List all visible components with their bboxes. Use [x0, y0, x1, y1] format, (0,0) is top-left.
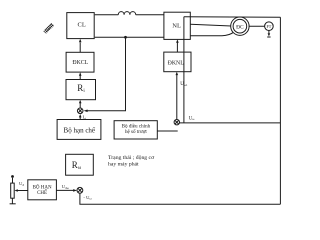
slip regulator box: [114, 121, 157, 139]
svg-text:Uđ: Uđ: [19, 181, 24, 187]
tachogenerator FT: [265, 22, 274, 31]
svg-text:ĐKCL: ĐKCL: [72, 60, 88, 66]
svg-text:Bộ hạn chế: Bộ hạn chế: [64, 127, 96, 135]
speed regulator Rw: [66, 154, 94, 175]
supply hatch symbol: [44, 23, 54, 33]
controller DKCL: [66, 52, 94, 72]
wire current feedback down and left to summer 1: [87, 37, 125, 111]
inductor L: [118, 12, 135, 15]
wire speed feedback bottom: [80, 193, 281, 204]
wire speed feedback vertical over boxes: [183, 17, 185, 123]
controller DKNL: [164, 52, 191, 72]
summer 2: [174, 120, 179, 125]
limiter Bo han che: [57, 120, 101, 140]
svg-text:hệ số trượt: hệ số trượt: [125, 128, 147, 135]
potentiometer: [10, 175, 16, 204]
svg-text:hay máy phát: hay máy phát: [108, 161, 139, 167]
wire Ri to DKCL with arrow: [79, 76, 81, 80]
svg-text:Trạng thái ; động cơ: Trạng thái ; động cơ: [108, 155, 155, 161]
svg-text:ĐC: ĐC: [236, 25, 244, 31]
limiter BO HAN CHE: [28, 180, 57, 200]
FT output arrow down: [268, 31, 270, 35]
limiter Bo han che to summer1 arrow: [79, 117, 81, 120]
wire summer2 to DKNL arrow: [176, 74, 178, 119]
svg-text:NL: NL: [172, 23, 181, 30]
wire summer1 to Ri with arrow: [79, 102, 81, 109]
svg-text:FT: FT: [266, 24, 271, 29]
inverter NL: [164, 12, 190, 39]
wire NL bottom output curving to motor: [190, 32, 233, 36]
svg-text:BỘ HẠN: BỘ HẠN: [33, 184, 52, 190]
wire DKCL to CL with arrow: [79, 43, 81, 53]
svg-text:CHẾ: CHẾ: [37, 190, 47, 196]
current regulator Ri: [66, 80, 96, 100]
mode caption text: [108, 155, 155, 167]
shaft motor to tacho: [249, 25, 265, 27]
svg-text:- Uω: - Uω: [83, 195, 92, 201]
wire dc-link top with inductor: [95, 14, 119, 16]
wire limiter output to summer 3: [56, 189, 74, 191]
wire top line over motor to right corner: [184, 16, 281, 19]
svg-text:CL: CL: [78, 21, 86, 28]
summer 3: [77, 187, 83, 193]
wire speed feedback horizontal to summer 2: [180, 122, 281, 124]
rectifier CL: [67, 13, 94, 39]
wire DKNL to NL arrow: [176, 42, 178, 52]
wire slip regulator output: [157, 130, 177, 132]
wire dc-link bottom: [95, 36, 164, 38]
summer 1: [77, 108, 83, 114]
svg-text:ĐKNL: ĐKNL: [168, 61, 185, 67]
svg-text:Uω: Uω: [189, 116, 195, 121]
wire NL middle output to motor: [190, 24, 231, 26]
motor DC: [231, 17, 249, 35]
junction dot: [124, 36, 127, 39]
wire right feedback vertical: [279, 17, 281, 204]
svg-text:Uđω: Uđω: [62, 184, 69, 190]
wiper wire to limiter with arrow into pot: [17, 190, 28, 192]
wire dc-link top right segment: [136, 14, 164, 16]
